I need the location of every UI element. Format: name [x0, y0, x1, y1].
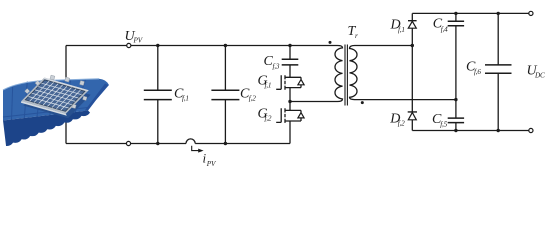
- svg-text:f,1: f,1: [398, 26, 405, 34]
- svg-text:f,2: f,2: [398, 119, 405, 127]
- svg-text:f,1: f,1: [265, 81, 272, 89]
- svg-text:f,3: f,3: [273, 62, 280, 70]
- svg-text:f,6: f,6: [474, 68, 481, 76]
- svg-text:f,4: f,4: [441, 25, 448, 33]
- svg-text:f,2: f,2: [265, 115, 272, 123]
- svg-text:f,1: f,1: [182, 94, 189, 102]
- svg-text:f,5: f,5: [440, 120, 447, 128]
- svg-text:DC: DC: [534, 72, 545, 80]
- svg-text:f,2: f,2: [249, 95, 256, 103]
- svg-text:r: r: [355, 32, 358, 40]
